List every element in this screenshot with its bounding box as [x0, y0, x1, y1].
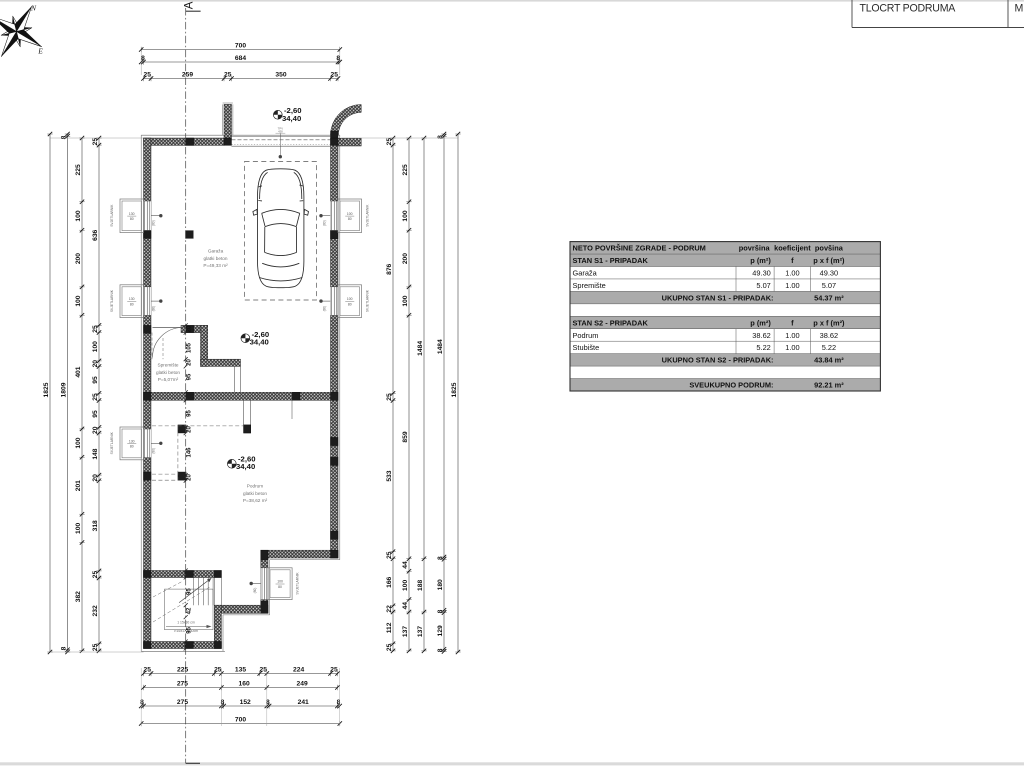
- svg-text:glatki beton: glatki beton: [204, 256, 228, 261]
- svg-text:318: 318: [92, 520, 99, 531]
- svg-text:Garaža: Garaža: [208, 249, 224, 254]
- svg-text:100: 100: [402, 295, 409, 306]
- svg-text:25: 25: [330, 667, 338, 674]
- svg-text:E: E: [37, 47, 43, 56]
- svg-text:200: 200: [75, 253, 82, 264]
- svg-text:Podrum: Podrum: [573, 331, 599, 340]
- svg-text:20: 20: [92, 426, 99, 434]
- svg-text:SVJETLARNIK: SVJETLARNIK: [365, 204, 369, 227]
- svg-text:249: 249: [297, 681, 308, 688]
- svg-text:8: 8: [437, 648, 444, 652]
- svg-text:SVJETLARNIK: SVJETLARNIK: [110, 204, 114, 227]
- svg-text:54.37 m²: 54.37 m²: [814, 293, 844, 302]
- svg-text:224: 224: [293, 667, 304, 674]
- svg-text:25: 25: [92, 393, 99, 401]
- svg-text:700: 700: [235, 717, 246, 724]
- svg-text:8: 8: [437, 135, 444, 139]
- svg-text:25: 25: [386, 551, 393, 559]
- svg-text:SVJETLARNIK: SVJETLARNIK: [110, 431, 114, 454]
- svg-text:P=49,33 m²: P=49,33 m²: [203, 263, 228, 268]
- svg-text:25: 25: [92, 571, 99, 579]
- svg-text:1 15x30 cm: 1 15x30 cm: [177, 621, 195, 625]
- svg-text:8: 8: [61, 646, 68, 650]
- svg-text:684: 684: [235, 55, 246, 62]
- svg-text:95: 95: [186, 626, 192, 633]
- svg-text:130: 130: [129, 297, 135, 301]
- svg-text:1.00: 1.00: [785, 281, 799, 290]
- svg-text:P=38,62 m²: P=38,62 m²: [243, 498, 268, 503]
- svg-text:A: A: [183, 1, 195, 9]
- svg-text:koeficijent: koeficijent: [774, 244, 811, 253]
- svg-text:P=5,07m²: P=5,07m²: [158, 377, 179, 382]
- svg-text:25: 25: [143, 72, 151, 79]
- svg-text:(80): (80): [253, 588, 257, 594]
- svg-text:130: 130: [129, 439, 135, 443]
- svg-text:438: 438: [278, 129, 283, 133]
- svg-text:34,40: 34,40: [282, 114, 301, 123]
- svg-text:(80): (80): [152, 448, 156, 454]
- svg-text:241: 241: [298, 699, 309, 706]
- svg-text:(80): (80): [152, 306, 156, 312]
- svg-text:1809: 1809: [61, 382, 68, 397]
- svg-text:M: M: [1015, 2, 1024, 14]
- svg-text:180: 180: [437, 579, 444, 590]
- svg-text:5.22: 5.22: [756, 343, 770, 352]
- svg-text:Stubište: Stubište: [573, 343, 600, 352]
- svg-text:112: 112: [386, 622, 393, 633]
- svg-text:25: 25: [386, 393, 393, 401]
- svg-text:25: 25: [92, 325, 99, 333]
- svg-text:95: 95: [186, 373, 192, 380]
- svg-text:636: 636: [92, 229, 99, 240]
- svg-text:1484: 1484: [437, 339, 444, 354]
- svg-text:350: 350: [275, 72, 286, 79]
- svg-text:100: 100: [92, 341, 99, 352]
- svg-text:100: 100: [402, 210, 409, 221]
- svg-text:100: 100: [347, 297, 353, 301]
- svg-text:80: 80: [130, 217, 134, 221]
- svg-text:p (m²): p (m²): [750, 256, 771, 265]
- svg-text:5.07: 5.07: [822, 281, 836, 290]
- svg-text:25: 25: [386, 138, 393, 146]
- svg-text:137: 137: [402, 626, 409, 637]
- svg-text:95: 95: [92, 376, 99, 384]
- svg-text:225: 225: [177, 667, 188, 674]
- svg-text:80: 80: [130, 302, 134, 306]
- svg-text:TLOCRT PODRUMA: TLOCRT PODRUMA: [860, 2, 957, 14]
- svg-text:80: 80: [278, 585, 282, 589]
- svg-text:25: 25: [224, 72, 232, 79]
- svg-text:95: 95: [186, 410, 192, 417]
- svg-text:STAN S2 - PRIPADAK: STAN S2 - PRIPADAK: [573, 318, 649, 327]
- svg-text:152: 152: [240, 699, 251, 706]
- svg-text:SVJETLARNIK: SVJETLARNIK: [365, 289, 369, 312]
- svg-text:5.07: 5.07: [756, 281, 770, 290]
- svg-text:188: 188: [417, 580, 424, 591]
- svg-text:1.00: 1.00: [785, 343, 799, 352]
- svg-text:100: 100: [75, 523, 82, 534]
- svg-text:p x f (m²): p x f (m²): [813, 256, 845, 265]
- svg-text:129: 129: [437, 625, 444, 636]
- svg-text:Podrum: Podrum: [247, 484, 264, 489]
- svg-text:42: 42: [186, 607, 192, 614]
- svg-text:43.84 m²: 43.84 m²: [814, 356, 844, 365]
- svg-text:80: 80: [348, 217, 352, 221]
- svg-text:200: 200: [402, 253, 409, 264]
- svg-text:(80): (80): [323, 220, 327, 226]
- svg-text:glatki beton: glatki beton: [156, 370, 180, 375]
- svg-text:(80): (80): [152, 220, 156, 226]
- svg-text:80: 80: [130, 445, 134, 449]
- svg-text:533: 533: [386, 470, 393, 481]
- svg-text:SVJETLARNIK: SVJETLARNIK: [296, 572, 300, 595]
- svg-text:232: 232: [92, 605, 99, 616]
- svg-text:STAN S1 - PRIPADAK: STAN S1 - PRIPADAK: [573, 256, 649, 265]
- svg-text:1.00: 1.00: [785, 269, 799, 278]
- svg-text:20: 20: [92, 474, 99, 482]
- svg-text:225: 225: [402, 164, 409, 175]
- svg-text:95: 95: [92, 410, 99, 418]
- svg-text:100: 100: [347, 212, 353, 216]
- svg-text:137: 137: [417, 626, 424, 637]
- svg-text:25: 25: [92, 643, 99, 651]
- svg-text:225: 225: [75, 164, 82, 175]
- svg-text:8: 8: [141, 55, 145, 62]
- svg-text:22: 22: [386, 605, 393, 613]
- svg-text:NETO POVRŠINE ZGRADE - PODRUM: NETO POVRŠINE ZGRADE - PODRUM: [573, 244, 706, 253]
- svg-text:25: 25: [214, 667, 222, 674]
- svg-text:201: 201: [75, 480, 82, 491]
- svg-text:25: 25: [330, 72, 338, 79]
- svg-text:25: 25: [386, 643, 393, 651]
- svg-text:38.62: 38.62: [820, 331, 839, 340]
- svg-text:166: 166: [386, 576, 393, 587]
- svg-text:100: 100: [402, 580, 409, 591]
- svg-text:N: N: [30, 4, 37, 13]
- svg-text:100: 100: [75, 437, 82, 448]
- svg-text:8: 8: [437, 609, 444, 613]
- svg-text:34,40: 34,40: [250, 337, 269, 346]
- svg-text:8: 8: [140, 699, 144, 706]
- svg-text:34,40: 34,40: [236, 462, 255, 471]
- svg-text:Garaža: Garaža: [573, 269, 598, 278]
- svg-text:5.22: 5.22: [822, 343, 836, 352]
- svg-text:44: 44: [402, 602, 409, 610]
- svg-text:401: 401: [75, 366, 82, 377]
- svg-text:površina: površina: [739, 244, 771, 253]
- svg-text:1825: 1825: [451, 382, 458, 397]
- svg-text:UKUPNO STAN S1 - PRIPADAK:: UKUPNO STAN S1 - PRIPADAK:: [662, 293, 774, 302]
- svg-text:1.00: 1.00: [785, 331, 799, 340]
- svg-text:UKUPNO STAN S2 - PRIPADAK:: UKUPNO STAN S2 - PRIPADAK:: [662, 356, 774, 365]
- svg-text:44: 44: [402, 561, 409, 569]
- svg-text:275: 275: [177, 699, 188, 706]
- svg-text:p (m²): p (m²): [750, 318, 771, 327]
- svg-text:100: 100: [277, 580, 283, 584]
- svg-text:Spremište: Spremište: [573, 281, 606, 290]
- svg-text:876: 876: [386, 263, 393, 274]
- svg-text:1825: 1825: [43, 382, 50, 397]
- svg-text:20: 20: [92, 360, 99, 368]
- svg-text:49.30: 49.30: [820, 269, 839, 278]
- svg-text:Spremište: Spremište: [157, 363, 178, 368]
- svg-text:8: 8: [337, 699, 341, 706]
- svg-text:p x f (m²): p x f (m²): [813, 318, 845, 327]
- svg-text:160: 160: [239, 681, 250, 688]
- svg-text:148: 148: [92, 448, 99, 459]
- svg-text:38.62: 38.62: [752, 331, 771, 340]
- svg-text:25: 25: [259, 667, 267, 674]
- svg-text:130: 130: [129, 212, 135, 216]
- svg-text:100: 100: [75, 210, 82, 221]
- svg-text:259: 259: [182, 72, 193, 79]
- svg-text:700: 700: [235, 43, 246, 50]
- svg-text:8: 8: [61, 135, 68, 139]
- svg-text:25: 25: [143, 667, 151, 674]
- svg-text:49.30: 49.30: [752, 269, 771, 278]
- svg-text:1484: 1484: [417, 341, 424, 356]
- svg-text:100: 100: [75, 295, 82, 306]
- svg-text:382: 382: [75, 591, 82, 602]
- svg-text:(80): (80): [323, 306, 327, 312]
- svg-text:92.21 m²: 92.21 m²: [814, 381, 844, 390]
- svg-text:SVJETLARNIK: SVJETLARNIK: [110, 289, 114, 312]
- svg-text:275: 275: [177, 681, 188, 688]
- svg-text:135: 135: [235, 667, 246, 674]
- svg-text:8: 8: [437, 556, 444, 560]
- svg-text:859: 859: [402, 431, 409, 442]
- svg-text:povšina: povšina: [815, 244, 844, 253]
- svg-text:25: 25: [92, 138, 99, 146]
- svg-text:SVEUKUPNO PODRUM:: SVEUKUPNO PODRUM:: [689, 381, 773, 390]
- svg-text:105: 105: [186, 342, 192, 353]
- svg-text:146: 146: [186, 447, 192, 458]
- svg-text:95: 95: [186, 588, 192, 595]
- svg-text:80: 80: [348, 302, 352, 306]
- svg-text:glatki beton: glatki beton: [243, 491, 267, 496]
